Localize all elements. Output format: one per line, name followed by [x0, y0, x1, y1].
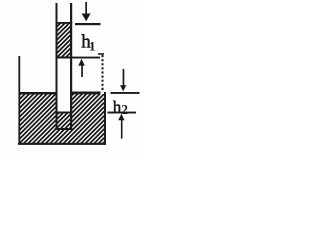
h1 up arrow [78, 59, 85, 77]
container right wall lower solid [104, 92, 106, 145]
liquid hatch: container left of tube [20, 94, 56, 143]
tube bottom rim [55, 128, 72, 130]
h1 down arrow [82, 2, 91, 21]
liquid hatch: trapped column h1 inside tube [58, 24, 71, 57]
tube left wall [56, 3, 58, 129]
svg-text:1: 1 [89, 38, 96, 53]
h1 bottom tick line [72, 57, 101, 59]
tube column bottom line [56, 57, 73, 59]
liquid hatch: inside tube lower column [58, 114, 71, 129]
h2 up arrow [118, 114, 124, 139]
liquid surface line left of tube [20, 92, 57, 94]
container left wall [18, 56, 20, 145]
container right wall top tick [98, 53, 104, 55]
tube internal depressed level line [56, 112, 73, 114]
h2 lower tick line [108, 112, 137, 114]
tube right wall [70, 3, 72, 129]
h2 down arrow [120, 69, 126, 91]
container right wall upper dashed [102, 55, 104, 92]
liquid hatch: container right of tube [72, 94, 104, 143]
svg-text:2: 2 [121, 102, 128, 117]
liquid surface line right of tube [72, 92, 101, 95]
container bottom [18, 143, 106, 145]
h2 upper tick line [111, 92, 140, 94]
tube column top meniscus line [56, 22, 73, 24]
h1 top tick line [75, 23, 101, 25]
liquid hatch: under tube bottom [56, 130, 73, 143]
